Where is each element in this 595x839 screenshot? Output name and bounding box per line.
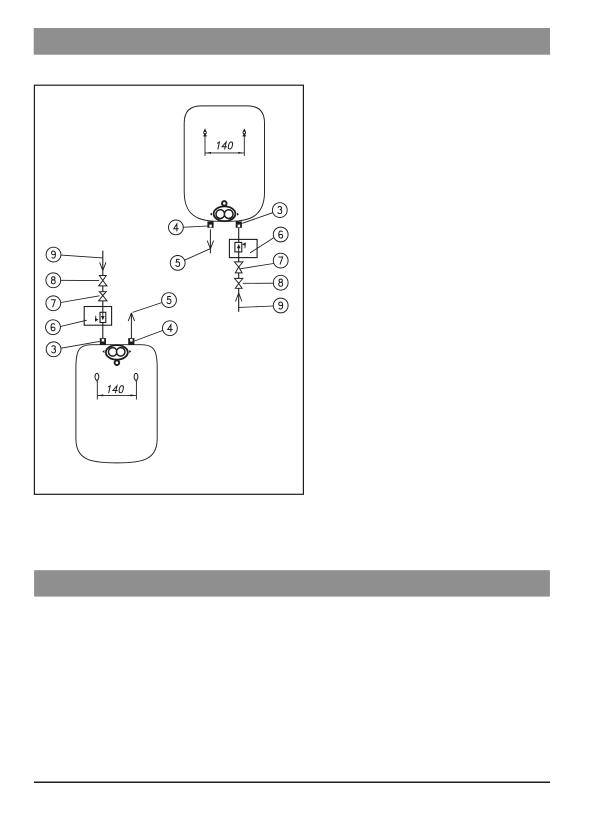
callout 9 upper bbox=[273, 298, 288, 313]
shutoff valve 7 lower bbox=[99, 292, 107, 301]
leader to callout 7 upper bbox=[240, 264, 274, 269]
leader to callout 4 lower bbox=[135, 331, 163, 342]
callout 3 upper bbox=[272, 203, 287, 218]
leader to callout 6 upper bbox=[250, 238, 274, 253]
callout 8 lower bbox=[46, 273, 61, 288]
upper left pipe fitting square bbox=[207, 221, 213, 227]
safety group box lower bbox=[84, 307, 111, 326]
figure frame bbox=[34, 85, 303, 494]
callout 6 lower bbox=[46, 320, 61, 335]
upper union nut right bbox=[224, 210, 233, 219]
callout 6 upper bbox=[273, 227, 288, 242]
footer rule bbox=[34, 781, 550, 783]
leader to callout 3 lower bbox=[61, 341, 99, 348]
lower left pipe fitting square bbox=[100, 338, 106, 344]
callout 7 lower bbox=[46, 296, 61, 311]
lower union flange shell bbox=[102, 345, 131, 360]
lower union nut right bbox=[116, 348, 125, 357]
lower dimension extension line left bbox=[96, 381, 98, 400]
leader to callout 4 upper bbox=[182, 226, 207, 227]
section bar middle bbox=[34, 570, 550, 596]
shutoff valve 8 upper bbox=[235, 278, 243, 288]
upper dimension line bbox=[205, 152, 244, 154]
leader to callout 6 lower bbox=[61, 320, 87, 326]
lower outlet pipe with up arrow bbox=[128, 313, 134, 338]
lower dimension label 140 bbox=[107, 386, 124, 393]
leader to callout 9 upper bbox=[239, 306, 274, 307]
upper tank hanger bolt right bbox=[242, 128, 246, 136]
upper tank outline bbox=[184, 106, 264, 221]
leader to callout 5 lower bbox=[133, 303, 162, 313]
leader to callout 8 upper bbox=[243, 282, 274, 284]
lower right pipe fitting square bbox=[128, 338, 134, 344]
upper inlet pipe bbox=[238, 228, 240, 312]
safety valve symbol lower bbox=[95, 312, 106, 322]
header bar top bbox=[34, 28, 550, 55]
callout 8 upper bbox=[273, 275, 288, 290]
upper outlet pipe with down arrow bbox=[207, 229, 213, 253]
callout 4 lower bbox=[163, 321, 178, 336]
lower supply down arrow bbox=[100, 262, 106, 270]
upper dimension extension line right bbox=[243, 136, 245, 156]
upper right pipe fitting square bbox=[236, 221, 242, 227]
callout 4 upper bbox=[169, 220, 184, 235]
callout 5 lower bbox=[162, 293, 177, 308]
upper union flange shell bbox=[210, 206, 239, 221]
callout 7 upper bbox=[273, 253, 288, 268]
leader to callout 9 lower bbox=[61, 255, 103, 258]
shutoff valve 8 lower bbox=[99, 276, 107, 286]
leader to callout 3 upper bbox=[242, 213, 272, 224]
lower dimension extension line right bbox=[135, 381, 137, 400]
upper inlet up arrow bbox=[236, 293, 242, 302]
safety valve symbol upper bbox=[235, 242, 246, 252]
lower dimension line bbox=[97, 394, 136, 396]
lower supply pipe bbox=[102, 251, 104, 339]
upper dimension label 140 bbox=[216, 142, 233, 149]
callout 5 upper bbox=[170, 256, 185, 271]
callout 3 lower bbox=[46, 342, 61, 357]
upper union cap bbox=[222, 201, 227, 206]
leader to callout 7 lower bbox=[61, 296, 100, 303]
shutoff valve 7 upper bbox=[235, 262, 243, 273]
upper dimension extension line left bbox=[204, 136, 206, 156]
callout 9 lower bbox=[46, 247, 61, 262]
lower tank hanger bolt left bbox=[95, 373, 99, 382]
safety group box upper bbox=[229, 239, 257, 257]
lower tank hanger bolt right bbox=[134, 373, 138, 382]
upper tank hanger bolt left bbox=[203, 128, 207, 136]
lower tank outline bbox=[76, 345, 157, 463]
leader to callout 5 upper bbox=[184, 249, 210, 261]
lower union nut left bbox=[108, 348, 117, 357]
upper union nut left bbox=[216, 210, 225, 219]
leader to callout 8 lower bbox=[61, 279, 99, 281]
lower union cap bbox=[115, 360, 120, 365]
